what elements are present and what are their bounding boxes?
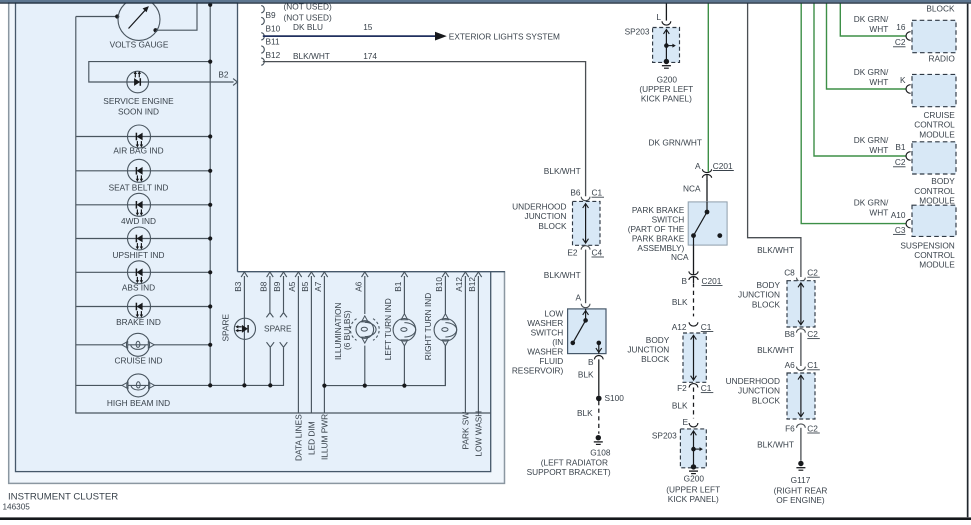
ABS IND LED — [128, 261, 151, 284]
node spare stub bus junction — [268, 383, 272, 387]
svg-text:15: 15 — [363, 22, 373, 32]
svg-text:MODULE: MODULE — [919, 129, 955, 139]
svg-text:RADIO: RADIO — [929, 54, 956, 64]
module connector — [906, 219, 911, 228]
svg-text:JUNCTION: JUNCTION — [738, 386, 780, 396]
svg-text:BLK: BLK — [577, 408, 593, 418]
svg-text:BLOCK: BLOCK — [538, 221, 567, 231]
node volts gauge left terminal — [115, 14, 119, 18]
svg-text:B5: B5 — [300, 281, 310, 292]
svg-text:F6: F6 — [785, 423, 795, 433]
svg-text:L: L — [656, 12, 661, 22]
underhood junction block (left) — [573, 201, 601, 245]
svg-text:B8: B8 — [785, 329, 796, 339]
svg-text:BLK: BLK — [672, 297, 688, 307]
wire DK GRN/WHT to park brake switch — [707, 3, 709, 171]
svg-text:(UPPER LEFT: (UPPER LEFT — [666, 484, 720, 494]
svg-text:BLK: BLK — [578, 370, 594, 380]
svg-text:G108: G108 — [590, 448, 611, 458]
AIR BAG IND LED — [128, 125, 151, 148]
svg-text:SERVICE ENGINE: SERVICE ENGINE — [103, 96, 174, 106]
svg-text:B2: B2 — [218, 70, 229, 80]
svg-text:BLK/WHT: BLK/WHT — [757, 245, 794, 255]
svg-text:JUNCTION: JUNCTION — [525, 211, 567, 221]
connector A12 C1 — [689, 322, 698, 326]
volts gauge M1 — [118, 0, 160, 40]
svg-text:B9: B9 — [266, 10, 277, 20]
connector detail notch (white) — [238, 0, 507, 271]
svg-text:KICK PANEL): KICK PANEL) — [668, 494, 719, 504]
svg-text:CRUISE IND: CRUISE IND — [115, 356, 163, 366]
svg-text:WHT: WHT — [869, 208, 888, 218]
pin A7 arrow — [321, 272, 328, 277]
connector B low washer — [594, 355, 603, 359]
wire pin B5 led dim — [310, 276, 312, 413]
wire DK GRN/WHT to module — [827, 3, 907, 89]
svg-text:RESERVOIR): RESERVOIR) — [512, 365, 564, 375]
svg-text:A12: A12 — [672, 322, 687, 332]
wire pin B10 to right turn lamp — [444, 276, 446, 314]
wire pin B12 low wash — [477, 276, 479, 413]
svg-text:JUNCTION: JUNCTION — [738, 290, 780, 300]
svg-text:ABS IND: ABS IND — [122, 283, 155, 293]
connector B8 C2 — [797, 329, 806, 333]
svg-text:CRUISE: CRUISE — [923, 110, 955, 120]
svg-text:UNDERHOOD: UNDERHOOD — [512, 202, 566, 212]
svg-text:UNDERHOOD: UNDERHOOD — [726, 376, 780, 386]
svg-text:DK GRN/: DK GRN/ — [854, 14, 889, 24]
svg-text:CONTROL: CONTROL — [914, 120, 955, 130]
spare stub right lower — [280, 342, 288, 347]
svg-text:B: B — [681, 276, 687, 286]
wire left bus of indicator circuit — [76, 17, 491, 414]
svg-text:DK GRN/: DK GRN/ — [854, 67, 889, 77]
top toolbar — [0, 0, 971, 2]
svg-text:B3: B3 — [233, 281, 243, 292]
svg-text:(PART OF THE: (PART OF THE — [628, 224, 685, 234]
SEAT BELT IND row wire — [76, 170, 210, 172]
instrument cluster inner box — [16, 2, 491, 472]
svg-text:A7: A7 — [313, 281, 323, 292]
svg-text:BLOCK: BLOCK — [641, 354, 670, 364]
svg-text:C3: C3 — [895, 225, 906, 235]
svg-text:WHT: WHT — [869, 77, 888, 87]
svg-text:BLK: BLK — [672, 401, 688, 411]
spare stub B9 upper — [283, 276, 285, 312]
connector cavity B12 — [261, 58, 264, 65]
svg-text:SWITCH: SWITCH — [531, 327, 564, 337]
svg-text:BODY: BODY — [646, 335, 670, 345]
svg-text:LOW: LOW — [544, 308, 563, 318]
svg-text:DK GRN/WHT: DK GRN/WHT — [649, 137, 702, 147]
right window border — [967, 4, 969, 518]
module box — [912, 142, 956, 174]
svg-text:B8: B8 — [259, 281, 269, 292]
svg-text:16: 16 — [896, 22, 906, 32]
svg-text:C1: C1 — [807, 360, 818, 370]
wire DK GRN/WHT to module — [801, 3, 906, 223]
connector A C201 — [702, 169, 711, 172]
node AIR BAG IND right junction — [208, 134, 212, 138]
connector cavity B10 — [261, 33, 264, 40]
pin B8 arrow — [267, 272, 274, 277]
svg-text:KICK PANEL): KICK PANEL) — [641, 94, 692, 104]
spare stub B8 upper — [269, 276, 271, 312]
svg-text:G200: G200 — [657, 75, 678, 85]
4WD IND row wire — [76, 204, 210, 206]
connector F2 C1 — [689, 384, 698, 388]
svg-text:BODY: BODY — [931, 176, 955, 186]
underhood junction block (right) — [787, 373, 815, 419]
svg-text:SOON IND: SOON IND — [118, 107, 159, 117]
connector cavity B9 — [261, 17, 264, 24]
connector F6 C2 — [797, 424, 806, 428]
svg-text:C8: C8 — [784, 268, 795, 278]
svg-text:E: E — [682, 417, 688, 427]
svg-text:B12: B12 — [266, 50, 281, 60]
splice SP203 (upper left kick panel) — [653, 28, 680, 63]
svg-text:A10: A10 — [891, 210, 906, 220]
node BRAKE IND right junction — [208, 304, 212, 308]
svg-text:SEAT BELT IND: SEAT BELT IND — [109, 182, 169, 192]
arrow to exterior lights system — [435, 32, 447, 41]
spare stub left lower — [267, 342, 275, 347]
svg-text:BLK/WHT: BLK/WHT — [293, 51, 330, 61]
svg-text:BLOCK: BLOCK — [752, 395, 781, 405]
low washer switch (in washer fluid reservoir) — [568, 309, 606, 354]
pin B10 arrow — [442, 272, 449, 277]
svg-text:JUNCTION: JUNCTION — [627, 345, 669, 355]
wire NCA to park brake switch — [706, 180, 708, 202]
svg-text:LEFT TURN IND: LEFT TURN IND — [383, 298, 393, 360]
svg-text:B11: B11 — [266, 37, 281, 47]
wire BLK/WHT between junction blocks — [800, 333, 802, 366]
left turn indicator lamp — [401, 314, 408, 320]
svg-text:NCA: NCA — [683, 183, 701, 193]
node high beam bus junction — [208, 383, 212, 387]
svg-text:SUSPENSION: SUSPENSION — [900, 240, 954, 250]
svg-text:FLUID: FLUID — [539, 356, 563, 366]
wire BLK to splice SP203 (bottom) — [693, 388, 695, 419]
node A7 bus junction — [322, 384, 326, 388]
svg-text:(6 BULBS): (6 BULBS) — [342, 310, 352, 350]
svg-text:A6: A6 — [785, 360, 796, 370]
AIR BAG IND row wire — [76, 136, 210, 138]
pin B5 arrow — [308, 272, 315, 277]
bottom window bar — [0, 517, 971, 520]
svg-text:BODY: BODY — [756, 280, 780, 290]
module connector — [906, 32, 911, 41]
svg-text:C201: C201 — [713, 161, 733, 171]
wire BLK/WHT to low washer switch — [585, 250, 587, 304]
svg-text:A5: A5 — [287, 281, 297, 292]
wire pin B3 to spare LED to bus — [243, 276, 245, 385]
splice SP203 bottom (upper left kick panel) — [680, 429, 706, 468]
CRUISE IND lamp — [122, 342, 128, 349]
connector A low washer — [581, 304, 590, 308]
wire volts gauge left — [76, 16, 117, 18]
BRAKE IND row wire — [76, 306, 210, 308]
wire L to splice SP203 (top) — [665, 3, 667, 20]
wire BLK to splice S100 — [598, 359, 600, 395]
svg-text:RIGHT TURN IND: RIGHT TURN IND — [423, 293, 433, 360]
svg-text:A12: A12 — [454, 277, 464, 292]
svg-text:VOLTS GAUGE: VOLTS GAUGE — [110, 40, 169, 50]
svg-text:UPSHIFT IND: UPSHIFT IND — [113, 250, 165, 260]
svg-text:BRAKE IND: BRAKE IND — [116, 317, 161, 327]
module box — [912, 20, 956, 52]
svg-text:EXTERIOR LIGHTS SYSTEM: EXTERIOR LIGHTS SYSTEM — [449, 32, 560, 42]
svg-text:C1: C1 — [701, 383, 712, 393]
CRUISE IND row wire — [76, 344, 210, 346]
module connector — [906, 152, 911, 161]
svg-text:B12: B12 — [467, 277, 477, 292]
connector E2 C4 — [581, 246, 590, 250]
pin B1 arrow — [401, 272, 408, 277]
pin B2 arrow — [233, 79, 237, 86]
svg-text:C2: C2 — [807, 329, 818, 339]
svg-text:B1: B1 — [393, 281, 403, 292]
svg-text:A: A — [575, 292, 581, 302]
svg-text:146305: 146305 — [3, 503, 31, 512]
svg-text:4WD IND: 4WD IND — [121, 216, 156, 226]
SEAT BELT IND LED — [128, 159, 151, 182]
svg-text:A: A — [695, 161, 701, 171]
pin B9 arrow — [280, 272, 287, 277]
svg-text:WHT: WHT — [869, 145, 888, 155]
spare LED (B3) — [234, 318, 255, 339]
node ABS IND right junction — [208, 270, 212, 274]
connector splice SP203 top — [662, 21, 671, 25]
svg-text:B10: B10 — [434, 277, 444, 292]
svg-text:DK GRN/: DK GRN/ — [854, 198, 889, 208]
node illumination bus junction — [363, 384, 367, 388]
svg-text:B9: B9 — [272, 281, 282, 292]
svg-text:BLK/WHT: BLK/WHT — [757, 440, 794, 450]
svg-text:C1: C1 — [592, 188, 603, 198]
wire BLK to body junction block — [693, 283, 695, 316]
svg-text:SPARE: SPARE — [221, 314, 231, 342]
wire NCA park brake to C201 B — [693, 245, 695, 274]
body junction block (middle) — [683, 333, 706, 382]
svg-text:C2: C2 — [895, 37, 906, 47]
wire pin A7 illum pwr — [323, 276, 325, 413]
svg-text:C2: C2 — [807, 268, 818, 278]
HIGH BEAM IND row wire / lamp bus left segment — [76, 347, 284, 385]
svg-text:E2: E2 — [567, 247, 578, 257]
svg-text:174: 174 — [363, 51, 377, 61]
svg-text:WASHER: WASHER — [527, 346, 563, 356]
splice S100 — [596, 396, 602, 402]
svg-text:SP203: SP203 — [652, 431, 677, 441]
svg-text:BLOCK: BLOCK — [926, 3, 955, 13]
ABS IND row wire — [76, 271, 210, 273]
HIGH BEAM IND lamp — [122, 382, 128, 389]
svg-text:PARK SW: PARK SW — [461, 412, 471, 450]
svg-text:AIR BAG IND: AIR BAG IND — [113, 146, 163, 156]
svg-text:SWITCH: SWITCH — [652, 214, 685, 224]
body junction block (right) — [787, 281, 815, 327]
illumination lamp (6 bulbs) — [362, 316, 369, 322]
svg-text:OF ENGINE): OF ENGINE) — [776, 495, 825, 505]
svg-text:DK BLU: DK BLU — [293, 22, 323, 32]
svg-text:SPARE: SPARE — [264, 324, 292, 334]
UPSHIFT IND row wire — [76, 238, 210, 240]
svg-text:ILLUM PWR: ILLUM PWR — [320, 414, 330, 460]
ground G117 (right rear of engine) — [798, 461, 803, 466]
svg-text:BLK/WHT: BLK/WHT — [544, 270, 581, 280]
module connector — [906, 85, 911, 94]
BRAKE IND LED — [128, 295, 151, 318]
park brake switch (part of the park brake assembly) — [688, 202, 727, 245]
svg-text:NCA: NCA — [671, 252, 689, 262]
wire DK GRN/WHT to module — [840, 3, 906, 36]
node SEAT BELT IND right junction — [208, 169, 212, 173]
node UPSHIFT IND right junction — [208, 236, 212, 240]
svg-text:LED DIM: LED DIM — [307, 421, 317, 455]
svg-text:C4: C4 — [592, 247, 603, 257]
svg-text:SP203: SP203 — [625, 27, 650, 37]
module box — [912, 205, 956, 236]
node service engine loop junction — [208, 60, 212, 64]
svg-text:MODULE: MODULE — [919, 260, 955, 270]
pin A5 arrow — [295, 272, 302, 277]
svg-text:DK GRN/: DK GRN/ — [854, 135, 889, 145]
connector B6 C1 — [581, 197, 590, 201]
svg-text:G200: G200 — [684, 474, 705, 484]
wire service engine soon loop — [89, 62, 234, 82]
svg-text:HIGH BEAM IND: HIGH BEAM IND — [107, 398, 170, 408]
UPSHIFT IND LED — [128, 227, 151, 250]
connector C8 C2 — [797, 278, 806, 282]
svg-text:K: K — [900, 75, 906, 85]
wire volts gauge right to top — [156, 3, 198, 30]
wire BLK S100 to G108 — [598, 401, 600, 434]
svg-text:B1: B1 — [895, 142, 906, 152]
wire pin A12 park sw — [464, 276, 466, 413]
pin A6 arrow — [362, 272, 369, 277]
node right bus top junction — [208, 3, 212, 7]
pin A12 arrow — [462, 272, 469, 277]
svg-text:BLK/WHT: BLK/WHT — [544, 166, 581, 176]
wire DK GRN/WHT to module — [814, 3, 907, 156]
svg-text:G117: G117 — [791, 475, 811, 485]
svg-text:C201: C201 — [702, 276, 722, 286]
wire DK BLU 15 exterior lights — [263, 35, 436, 37]
module box — [912, 74, 956, 106]
connector E SP203 — [689, 423, 698, 427]
svg-text:F2: F2 — [677, 383, 687, 393]
instrument cluster outer box — [9, 2, 505, 483]
svg-text:S100: S100 — [605, 393, 625, 403]
wire BLK/WHT 174 to underhood junction block — [263, 62, 586, 197]
svg-text:(UPPER LEFT: (UPPER LEFT — [639, 84, 693, 94]
svg-text:CONTROL: CONTROL — [914, 186, 955, 196]
svg-text:C1: C1 — [701, 322, 712, 332]
svg-text:BLOCK: BLOCK — [752, 299, 781, 309]
svg-text:C2: C2 — [895, 157, 906, 167]
svg-text:A6: A6 — [354, 281, 364, 292]
svg-text:MODULE: MODULE — [919, 196, 955, 206]
connector A6 C1 — [797, 367, 806, 371]
svg-text:WHT: WHT — [869, 24, 888, 34]
svg-text:WASHER: WASHER — [527, 318, 563, 328]
svg-text:LOW WASH: LOW WASH — [474, 411, 484, 457]
node spare LED bus junction — [242, 383, 246, 387]
svg-text:B6: B6 — [570, 188, 581, 198]
node volts gauge right terminal — [153, 28, 157, 32]
4WD IND LED — [128, 193, 151, 216]
pin B12 arrow — [475, 272, 482, 277]
node left turn bus junction — [402, 384, 406, 388]
connector cavity B11 — [261, 46, 264, 53]
node 4WD IND right junction — [208, 203, 212, 207]
svg-text:(LEFT RADIATOR: (LEFT RADIATOR — [541, 457, 608, 467]
wire pin B1 to left turn lamp — [403, 276, 405, 314]
wire pin A6 to illumination lamp — [364, 276, 366, 314]
svg-text:(RIGHT REAR: (RIGHT REAR — [774, 485, 828, 495]
svg-text:B10: B10 — [266, 23, 281, 33]
node cruise right junction — [208, 343, 212, 347]
wire right bus of indicator circuit — [209, 4, 211, 385]
service engine soon indicator LED — [127, 71, 149, 93]
svg-text:BLK/WHT: BLK/WHT — [757, 345, 794, 355]
wire pin A5 data lines — [297, 276, 299, 413]
notch border — [237, 2, 239, 272]
svg-text:B: B — [588, 357, 594, 367]
svg-text:C2: C2 — [807, 423, 818, 433]
svg-text:DATA LINES: DATA LINES — [294, 414, 304, 461]
svg-text:PARK BRAKE: PARK BRAKE — [632, 205, 685, 215]
svg-text:(IN: (IN — [552, 337, 563, 347]
svg-text:PARK BRAKE: PARK BRAKE — [632, 233, 685, 243]
wire lamp bus right segment — [324, 346, 445, 386]
wire BLK/WHT from top to body junction block (right) — [748, 3, 801, 277]
wire BLK/WHT to G117 — [800, 428, 802, 461]
ground G108 (left radiator support bracket) — [596, 435, 601, 440]
connector cavity B8 — [261, 6, 264, 13]
connector B C201 — [689, 271, 698, 274]
svg-text:CONTROL: CONTROL — [914, 250, 955, 260]
pin B3 arrow — [241, 272, 248, 277]
svg-text:INSTRUMENT CLUSTER: INSTRUMENT CLUSTER — [8, 492, 118, 503]
svg-text:SUPPORT BRACKET): SUPPORT BRACKET) — [527, 467, 611, 477]
svg-text:(NOT USED): (NOT USED) — [284, 12, 332, 22]
right turn indicator lamp — [442, 314, 449, 320]
